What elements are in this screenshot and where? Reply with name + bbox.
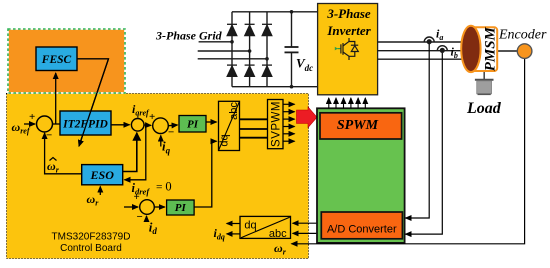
svg-text:Control Board: Control Board — [60, 243, 122, 254]
svg-text:3-Phase: 3-Phase — [326, 6, 371, 21]
svg-text:SPWM: SPWM — [337, 118, 379, 133]
svg-text:−: − — [168, 127, 174, 139]
svg-text:−: − — [137, 211, 143, 223]
svg-text:3-Phase Grid: 3-Phase Grid — [155, 29, 223, 43]
svg-text:PI: PI — [175, 202, 187, 214]
svg-text:+: + — [134, 191, 140, 203]
svg-text:+: + — [149, 111, 155, 123]
svg-text:+: + — [29, 111, 35, 123]
svg-text:PMSM: PMSM — [483, 26, 499, 71]
svg-text:A/D Converter: A/D Converter — [327, 223, 397, 235]
svg-text:Load: Load — [466, 100, 502, 117]
svg-text:dq: dq — [219, 134, 231, 146]
svg-text:−: − — [46, 130, 52, 142]
svg-text:TMS320F28379D: TMS320F28379D — [52, 232, 131, 243]
svg-text:= 0: = 0 — [156, 179, 172, 193]
svg-text:Inverter: Inverter — [326, 23, 371, 38]
svg-text:PI: PI — [187, 119, 199, 131]
svg-text:abc: abc — [269, 228, 287, 240]
svg-text:abc: abc — [228, 102, 240, 120]
svg-text:dq: dq — [244, 219, 256, 231]
svg-text:Encoder: Encoder — [498, 28, 547, 43]
svg-text:FESC: FESC — [41, 54, 72, 66]
svg-text:ESO: ESO — [90, 168, 115, 182]
svg-text:SVPWM: SVPWM — [271, 101, 283, 147]
